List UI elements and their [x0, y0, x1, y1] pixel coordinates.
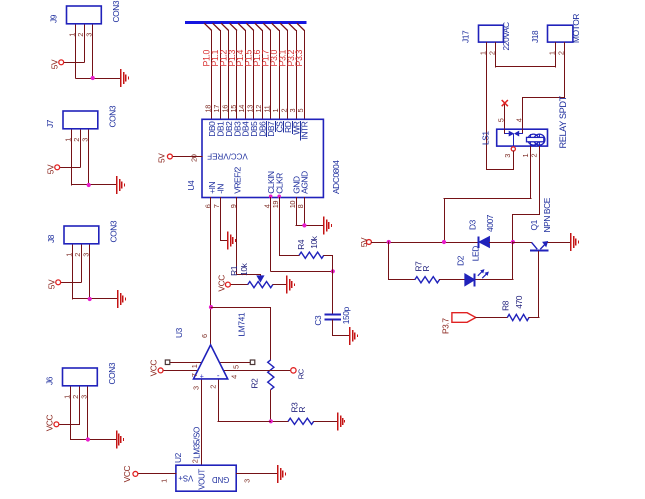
- svg-text:1: 1: [160, 479, 169, 483]
- svg-text:7: 7: [190, 373, 199, 377]
- svg-text:CLKR: CLKR: [275, 173, 285, 194]
- svg-text:J17: J17: [461, 30, 471, 43]
- svg-text:VOUT: VOUT: [197, 469, 206, 490]
- svg-text:4: 4: [230, 375, 239, 379]
- svg-text:R8: R8: [500, 300, 510, 311]
- svg-text:150p: 150p: [341, 306, 351, 324]
- svg-text:2: 2: [209, 385, 218, 389]
- svg-text:J7: J7: [45, 119, 55, 128]
- svg-text:R1: R1: [229, 265, 239, 276]
- svg-text:4007: 4007: [485, 214, 495, 232]
- svg-text:-IN: -IN: [215, 184, 225, 194]
- svg-text:VCC: VCC: [149, 360, 159, 377]
- svg-text:+: +: [200, 373, 204, 380]
- svg-text:19: 19: [271, 201, 280, 209]
- svg-text:-: -: [217, 371, 220, 380]
- svg-text:LS1: LS1: [481, 131, 491, 145]
- svg-text:3: 3: [243, 479, 252, 483]
- svg-text:3: 3: [503, 154, 512, 158]
- svg-text:3: 3: [81, 138, 90, 142]
- svg-text:VCC: VCC: [45, 414, 55, 431]
- svg-text:5V: 5V: [359, 237, 369, 247]
- svg-text:INTR: INTR: [300, 121, 310, 139]
- svg-text:NPN BCE: NPN BCE: [542, 197, 552, 232]
- svg-text:6: 6: [200, 334, 209, 338]
- svg-text:MOTOR: MOTOR: [571, 14, 581, 43]
- svg-text:AGND: AGND: [300, 171, 310, 194]
- svg-text:10k: 10k: [309, 235, 319, 249]
- svg-text:VREF/2: VREF/2: [232, 166, 242, 193]
- svg-text:LM35/SO: LM35/SO: [192, 427, 201, 459]
- svg-text:5: 5: [496, 118, 505, 122]
- svg-text:U2: U2: [173, 452, 183, 463]
- svg-text:4: 4: [514, 118, 523, 122]
- svg-text:20: 20: [189, 154, 198, 162]
- svg-text:J8: J8: [46, 234, 56, 243]
- svg-text:J18: J18: [530, 30, 540, 43]
- svg-text:1: 1: [478, 51, 487, 55]
- svg-text:RC: RC: [296, 368, 305, 379]
- svg-text:VS+: VS+: [178, 474, 193, 483]
- svg-text:3: 3: [82, 253, 91, 257]
- svg-text:CON3: CON3: [107, 362, 117, 384]
- svg-text:R: R: [297, 407, 307, 413]
- svg-text:VCC: VCC: [216, 275, 226, 292]
- svg-text:5: 5: [231, 365, 240, 369]
- svg-text:3: 3: [80, 395, 89, 399]
- svg-text:LED: LED: [470, 246, 480, 261]
- svg-text:10k: 10k: [239, 262, 249, 276]
- svg-text:1: 1: [190, 364, 199, 368]
- svg-text:3: 3: [191, 386, 200, 390]
- svg-text:RELAY SPDT: RELAY SPDT: [558, 95, 568, 148]
- svg-text:1: 1: [547, 51, 556, 55]
- svg-text:U3: U3: [174, 327, 184, 338]
- svg-text:5V: 5V: [45, 164, 55, 174]
- svg-text:J6: J6: [45, 376, 55, 385]
- svg-text:P3.7: P3.7: [441, 318, 451, 334]
- svg-text:470: 470: [514, 295, 524, 309]
- svg-text:5V: 5V: [157, 153, 167, 163]
- svg-text:ADC0804: ADC0804: [331, 160, 341, 194]
- svg-text:C3: C3: [313, 315, 323, 326]
- svg-text:2: 2: [190, 459, 199, 463]
- svg-text:7: 7: [212, 204, 221, 208]
- svg-text:U4: U4: [186, 180, 196, 191]
- svg-text:D3: D3: [468, 219, 478, 230]
- svg-text:R: R: [421, 266, 431, 272]
- svg-text:P3.3: P3.3: [294, 49, 304, 66]
- svg-text:CON3: CON3: [111, 0, 121, 22]
- svg-text:D2: D2: [456, 255, 466, 266]
- svg-text:CON3: CON3: [108, 105, 118, 127]
- svg-text:8: 8: [296, 204, 305, 208]
- svg-text:GND: GND: [212, 475, 230, 484]
- svg-text:CON3: CON3: [109, 220, 119, 242]
- svg-text:5V: 5V: [49, 59, 59, 69]
- svg-text:220VAC: 220VAC: [501, 22, 511, 51]
- svg-text:3: 3: [85, 33, 94, 37]
- svg-text:Q1: Q1: [529, 219, 539, 230]
- svg-text:J9: J9: [49, 14, 59, 23]
- svg-text:VCC/VREF: VCC/VREF: [207, 151, 248, 160]
- svg-text:5: 5: [296, 109, 305, 113]
- svg-text:R2: R2: [250, 378, 260, 389]
- svg-text:R4: R4: [296, 239, 306, 250]
- svg-text:LM741: LM741: [237, 312, 247, 336]
- svg-text:5V: 5V: [46, 279, 56, 289]
- svg-text:VCC: VCC: [122, 465, 132, 482]
